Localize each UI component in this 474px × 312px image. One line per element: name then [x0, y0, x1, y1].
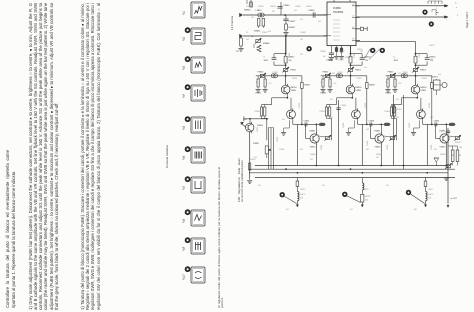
- svg-text:t: t: [446, 18, 447, 21]
- svg-text:2k2: 2k2: [399, 83, 402, 85]
- svg-text:3851: 3851: [394, 60, 399, 62]
- svg-text:C: C: [264, 57, 266, 59]
- svg-text:2k2: 2k2: [318, 21, 321, 23]
- svg-text:R3891: R3891: [250, 159, 256, 161]
- svg-text:V3851: V3851: [367, 141, 369, 146]
- svg-text:R: R: [460, 155, 462, 157]
- svg-text:P3851: P3851: [290, 70, 297, 72]
- svg-text:V3853: V3853: [440, 147, 447, 149]
- svg-text:2k2: 2k2: [269, 83, 272, 85]
- svg-text:Fg8: Fg8: [183, 218, 186, 223]
- svg-text:C3841: C3841: [258, 6, 264, 8]
- svg-text:S3871: S3871: [432, 77, 439, 79]
- svg-text:Fg5: Fg5: [183, 125, 186, 130]
- svg-text:C3852: C3852: [279, 149, 285, 151]
- svg-text:R3861: R3861: [310, 131, 316, 133]
- svg-text:2k2: 2k2: [251, 17, 254, 19]
- svg-text:C: C: [455, 2, 457, 4]
- svg-text:2k2: 2k2: [364, 67, 367, 69]
- svg-text:2k2: 2k2: [282, 119, 285, 121]
- svg-text:Fg4: Fg4: [183, 93, 186, 98]
- svg-text:2k2: 2k2: [330, 99, 333, 101]
- svg-text:2k2: 2k2: [396, 99, 399, 101]
- svg-text:P3851: P3851: [420, 70, 427, 72]
- svg-text:c: c: [456, 7, 457, 9]
- svg-text:R3841: R3841: [254, 31, 261, 33]
- svg-text:V3851: V3851: [365, 103, 367, 108]
- svg-text:C3853: C3853: [292, 78, 297, 80]
- svg-text:2k2: 2k2: [330, 117, 333, 119]
- svg-text:6: 6: [353, 27, 355, 29]
- svg-text:C3844: C3844: [295, 6, 301, 8]
- svg-text:R3842: R3842: [289, 27, 296, 29]
- svg-text:3851: 3851: [329, 60, 334, 62]
- svg-text:C3806: C3806: [320, 51, 326, 53]
- svg-text:2k2: 2k2: [272, 11, 275, 13]
- svg-text:L2: L2: [246, 32, 248, 34]
- svg-text:2k2: 2k2: [386, 185, 389, 187]
- svg-text:2k2: 2k2: [258, 185, 261, 187]
- svg-text:Fg7: Fg7: [183, 185, 186, 190]
- svg-text:C3807: C3807: [338, 60, 344, 62]
- svg-text:1k8: 1k8: [459, 147, 462, 149]
- svg-text:V3851: V3851: [429, 103, 431, 108]
- svg-text:Fg1: Fg1: [183, 10, 186, 15]
- svg-text:2k2: 2k2: [300, 54, 303, 56]
- svg-text:4: 4: [353, 15, 355, 17]
- svg-text:V3851: V3851: [291, 90, 298, 92]
- svg-text:2k2: 2k2: [430, 117, 433, 119]
- svg-text:L3840: L3840: [246, 6, 251, 8]
- svg-text:2k2: 2k2: [300, 19, 303, 21]
- svg-text:BF394: BF394: [421, 87, 428, 89]
- svg-text:R3843: R3843: [270, 6, 276, 8]
- svg-text:2k2: 2k2: [262, 107, 265, 109]
- svg-text:R3861: R3861: [375, 131, 381, 133]
- svg-text:2k2: 2k2: [396, 117, 399, 119]
- svg-text:BF394: BF394: [291, 87, 298, 89]
- svg-text:R3864: R3864: [440, 154, 446, 156]
- svg-text:Fg2: Fg2: [183, 36, 186, 41]
- svg-text:2k2: 2k2: [300, 149, 303, 151]
- svg-text:L3841: L3841: [256, 10, 263, 12]
- svg-text:R3853: R3853: [273, 72, 278, 74]
- svg-text:4u7: 4u7: [323, 56, 326, 58]
- svg-text:C3843: C3843: [308, 10, 315, 12]
- svg-text:L3875: L3875: [428, 194, 433, 196]
- svg-text:R3840: R3840: [244, 10, 251, 12]
- svg-text:2k2: 2k2: [366, 149, 369, 151]
- svg-text:R3808: R3808: [345, 57, 351, 59]
- svg-text:C3856: C3856: [434, 121, 440, 123]
- svg-text:C3842: C3842: [289, 21, 296, 23]
- svg-text:R3857: R3857: [369, 85, 376, 87]
- svg-text:R3857: R3857: [434, 85, 441, 87]
- svg-text:2k2: 2k2: [360, 51, 363, 53]
- svg-text:R3855: R3855: [256, 93, 262, 95]
- svg-text:2k2: 2k2: [322, 185, 325, 187]
- svg-text:2k2: 2k2: [300, 39, 303, 41]
- svg-text:L3875: L3875: [300, 194, 305, 196]
- svg-text:R3859: R3859: [320, 111, 326, 113]
- svg-text:SB: SB: [414, 209, 417, 211]
- svg-text:2k2: 2k2: [332, 73, 335, 75]
- svg-text:12k: 12k: [365, 60, 368, 62]
- svg-text:2k2: 2k2: [438, 74, 441, 76]
- svg-text:V3851: V3851: [299, 103, 301, 108]
- svg-text:C3853: C3853: [422, 78, 427, 80]
- svg-text:2k2: 2k2: [376, 157, 379, 159]
- svg-text:R3876: R3876: [363, 189, 369, 191]
- svg-text:C3856: C3856: [304, 121, 310, 123]
- svg-text:R3846: R3846: [263, 43, 270, 45]
- svg-text:SG: SG: [350, 209, 353, 211]
- svg-text:3851: 3851: [264, 60, 269, 62]
- svg-text:z: z: [457, 15, 458, 17]
- svg-text:R3864: R3864: [310, 154, 316, 156]
- svg-text:R3857: R3857: [304, 85, 311, 87]
- svg-text:V3851: V3851: [387, 145, 389, 150]
- svg-text:R3853: R3853: [338, 72, 343, 74]
- svg-text:6u8: 6u8: [428, 197, 431, 199]
- svg-text:P3850: P3850: [323, 72, 330, 74]
- svg-text:R3869: R3869: [396, 109, 402, 111]
- svg-text:R3853: R3853: [403, 72, 408, 74]
- svg-text:TDA3505: TDA3505: [333, 11, 344, 14]
- svg-text:R1: R1: [236, 51, 239, 53]
- svg-text:R3859: R3859: [255, 111, 261, 113]
- svg-text:SG: SG: [286, 209, 289, 211]
- svg-text:V3851: V3851: [421, 90, 428, 92]
- svg-text:V3851: V3851: [409, 123, 411, 128]
- svg-text:12k: 12k: [288, 60, 291, 62]
- svg-text:V3853: V3853: [375, 147, 382, 149]
- svg-text:2k2: 2k2: [366, 129, 369, 131]
- svg-text:Fg10: Fg10: [183, 274, 186, 280]
- svg-text:8: 8: [353, 38, 355, 40]
- svg-text:2k2: 2k2: [430, 59, 433, 61]
- svg-text:P3850: P3850: [388, 72, 395, 74]
- svg-text:2k2: 2k2: [434, 149, 437, 151]
- svg-text:6u8: 6u8: [300, 197, 303, 199]
- svg-text:IC3800: IC3800: [333, 7, 341, 10]
- svg-text:R3845: R3845: [306, 6, 312, 8]
- svg-text:P3890: P3890: [253, 143, 260, 145]
- svg-text:C3840: C3840: [283, 5, 290, 7]
- svg-text:V3851: V3851: [289, 53, 291, 58]
- svg-text:V3851: V3851: [343, 123, 345, 128]
- svg-text:R3859: R3859: [385, 111, 391, 113]
- svg-text:2k2: 2k2: [334, 83, 337, 85]
- svg-text:L3875: L3875: [300, 189, 305, 191]
- svg-text:2k2: 2k2: [254, 157, 257, 159]
- svg-text:V38: V38: [243, 119, 247, 121]
- svg-text:BF394: BF394: [356, 87, 363, 89]
- svg-text:C3869: C3869: [341, 105, 347, 107]
- svg-text:P3851: P3851: [355, 70, 362, 72]
- svg-text:to CRT: to CRT: [451, 197, 458, 200]
- svg-text:R3855: R3855: [321, 93, 327, 95]
- svg-text:V3853: V3853: [310, 147, 317, 149]
- svg-text:V3851: V3851: [356, 90, 363, 92]
- svg-text:2k2: 2k2: [294, 10, 297, 12]
- svg-text:V3851: V3851: [257, 127, 259, 132]
- svg-text:C3848: C3848: [300, 32, 306, 34]
- svg-text:2k2: 2k2: [310, 159, 313, 161]
- svg-text:2k2: 2k2: [268, 31, 271, 33]
- svg-text:P3850: P3850: [258, 72, 265, 74]
- svg-text:Fg9: Fg9: [183, 246, 186, 251]
- svg-text:V3851: V3851: [419, 53, 421, 58]
- svg-text:R3847: R3847: [262, 32, 268, 34]
- svg-text:R3876: R3876: [365, 196, 371, 198]
- svg-text:C3853: C3853: [357, 78, 362, 80]
- svg-text:R3871: R3871: [429, 45, 435, 47]
- svg-text:V3851: V3851: [277, 137, 279, 142]
- svg-text:R3864: R3864: [376, 154, 382, 156]
- svg-text:L3877: L3877: [428, 189, 433, 191]
- svg-text:R3855: R3855: [386, 93, 392, 95]
- svg-text:R3878: R3878: [455, 142, 461, 144]
- svg-text:C3856: C3856: [369, 121, 375, 123]
- svg-text:V3851: V3851: [354, 53, 356, 58]
- svg-text:C: C: [394, 57, 396, 59]
- svg-text:100: 100: [365, 199, 368, 201]
- svg-text:2k2: 2k2: [246, 39, 249, 41]
- svg-text:C3807: C3807: [339, 51, 345, 53]
- svg-text:2k2: 2k2: [398, 73, 401, 75]
- svg-text:Fg6: Fg6: [183, 155, 186, 160]
- svg-text:V3851: V3851: [431, 145, 433, 150]
- svg-text:V3851: V3851: [321, 145, 323, 150]
- svg-text:2: 2: [353, 4, 355, 6]
- svg-text:Fg3: Fg3: [183, 65, 186, 70]
- svg-text:R3861: R3861: [440, 131, 446, 133]
